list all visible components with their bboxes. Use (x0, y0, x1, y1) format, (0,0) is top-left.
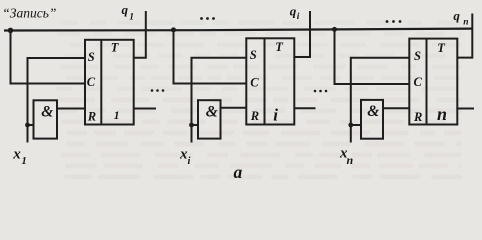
svg-text:1: 1 (22, 156, 27, 167)
svg-text:1: 1 (114, 110, 120, 122)
svg-text:i: i (297, 12, 300, 22)
svg-text:C: C (414, 75, 423, 89)
svg-text:R: R (87, 110, 96, 124)
svg-text:R: R (413, 110, 422, 124)
svg-text:n: n (437, 104, 447, 124)
svg-text:T: T (437, 41, 446, 55)
svg-text:q: q (122, 2, 129, 17)
svg-text:S: S (414, 49, 421, 63)
svg-text:S: S (250, 48, 257, 62)
svg-text:x: x (12, 146, 21, 162)
svg-text:&: & (41, 103, 53, 120)
svg-text:i: i (188, 156, 191, 167)
svg-text:T: T (275, 40, 284, 54)
svg-text:q: q (453, 8, 460, 23)
svg-text:C: C (87, 75, 96, 89)
svg-text:&: & (206, 104, 218, 121)
svg-text:&: & (367, 103, 379, 120)
svg-text:q: q (290, 4, 297, 19)
svg-text:n: n (463, 17, 468, 27)
svg-text:T: T (111, 41, 120, 55)
svg-text:n: n (347, 153, 354, 167)
svg-text:C: C (250, 75, 259, 89)
svg-text:a: a (234, 162, 243, 182)
svg-text:R: R (250, 109, 259, 123)
svg-text:“Запись”: “Запись” (2, 6, 56, 21)
svg-text:S: S (88, 50, 95, 64)
svg-text:i: i (273, 106, 278, 125)
svg-text:1: 1 (129, 13, 134, 23)
